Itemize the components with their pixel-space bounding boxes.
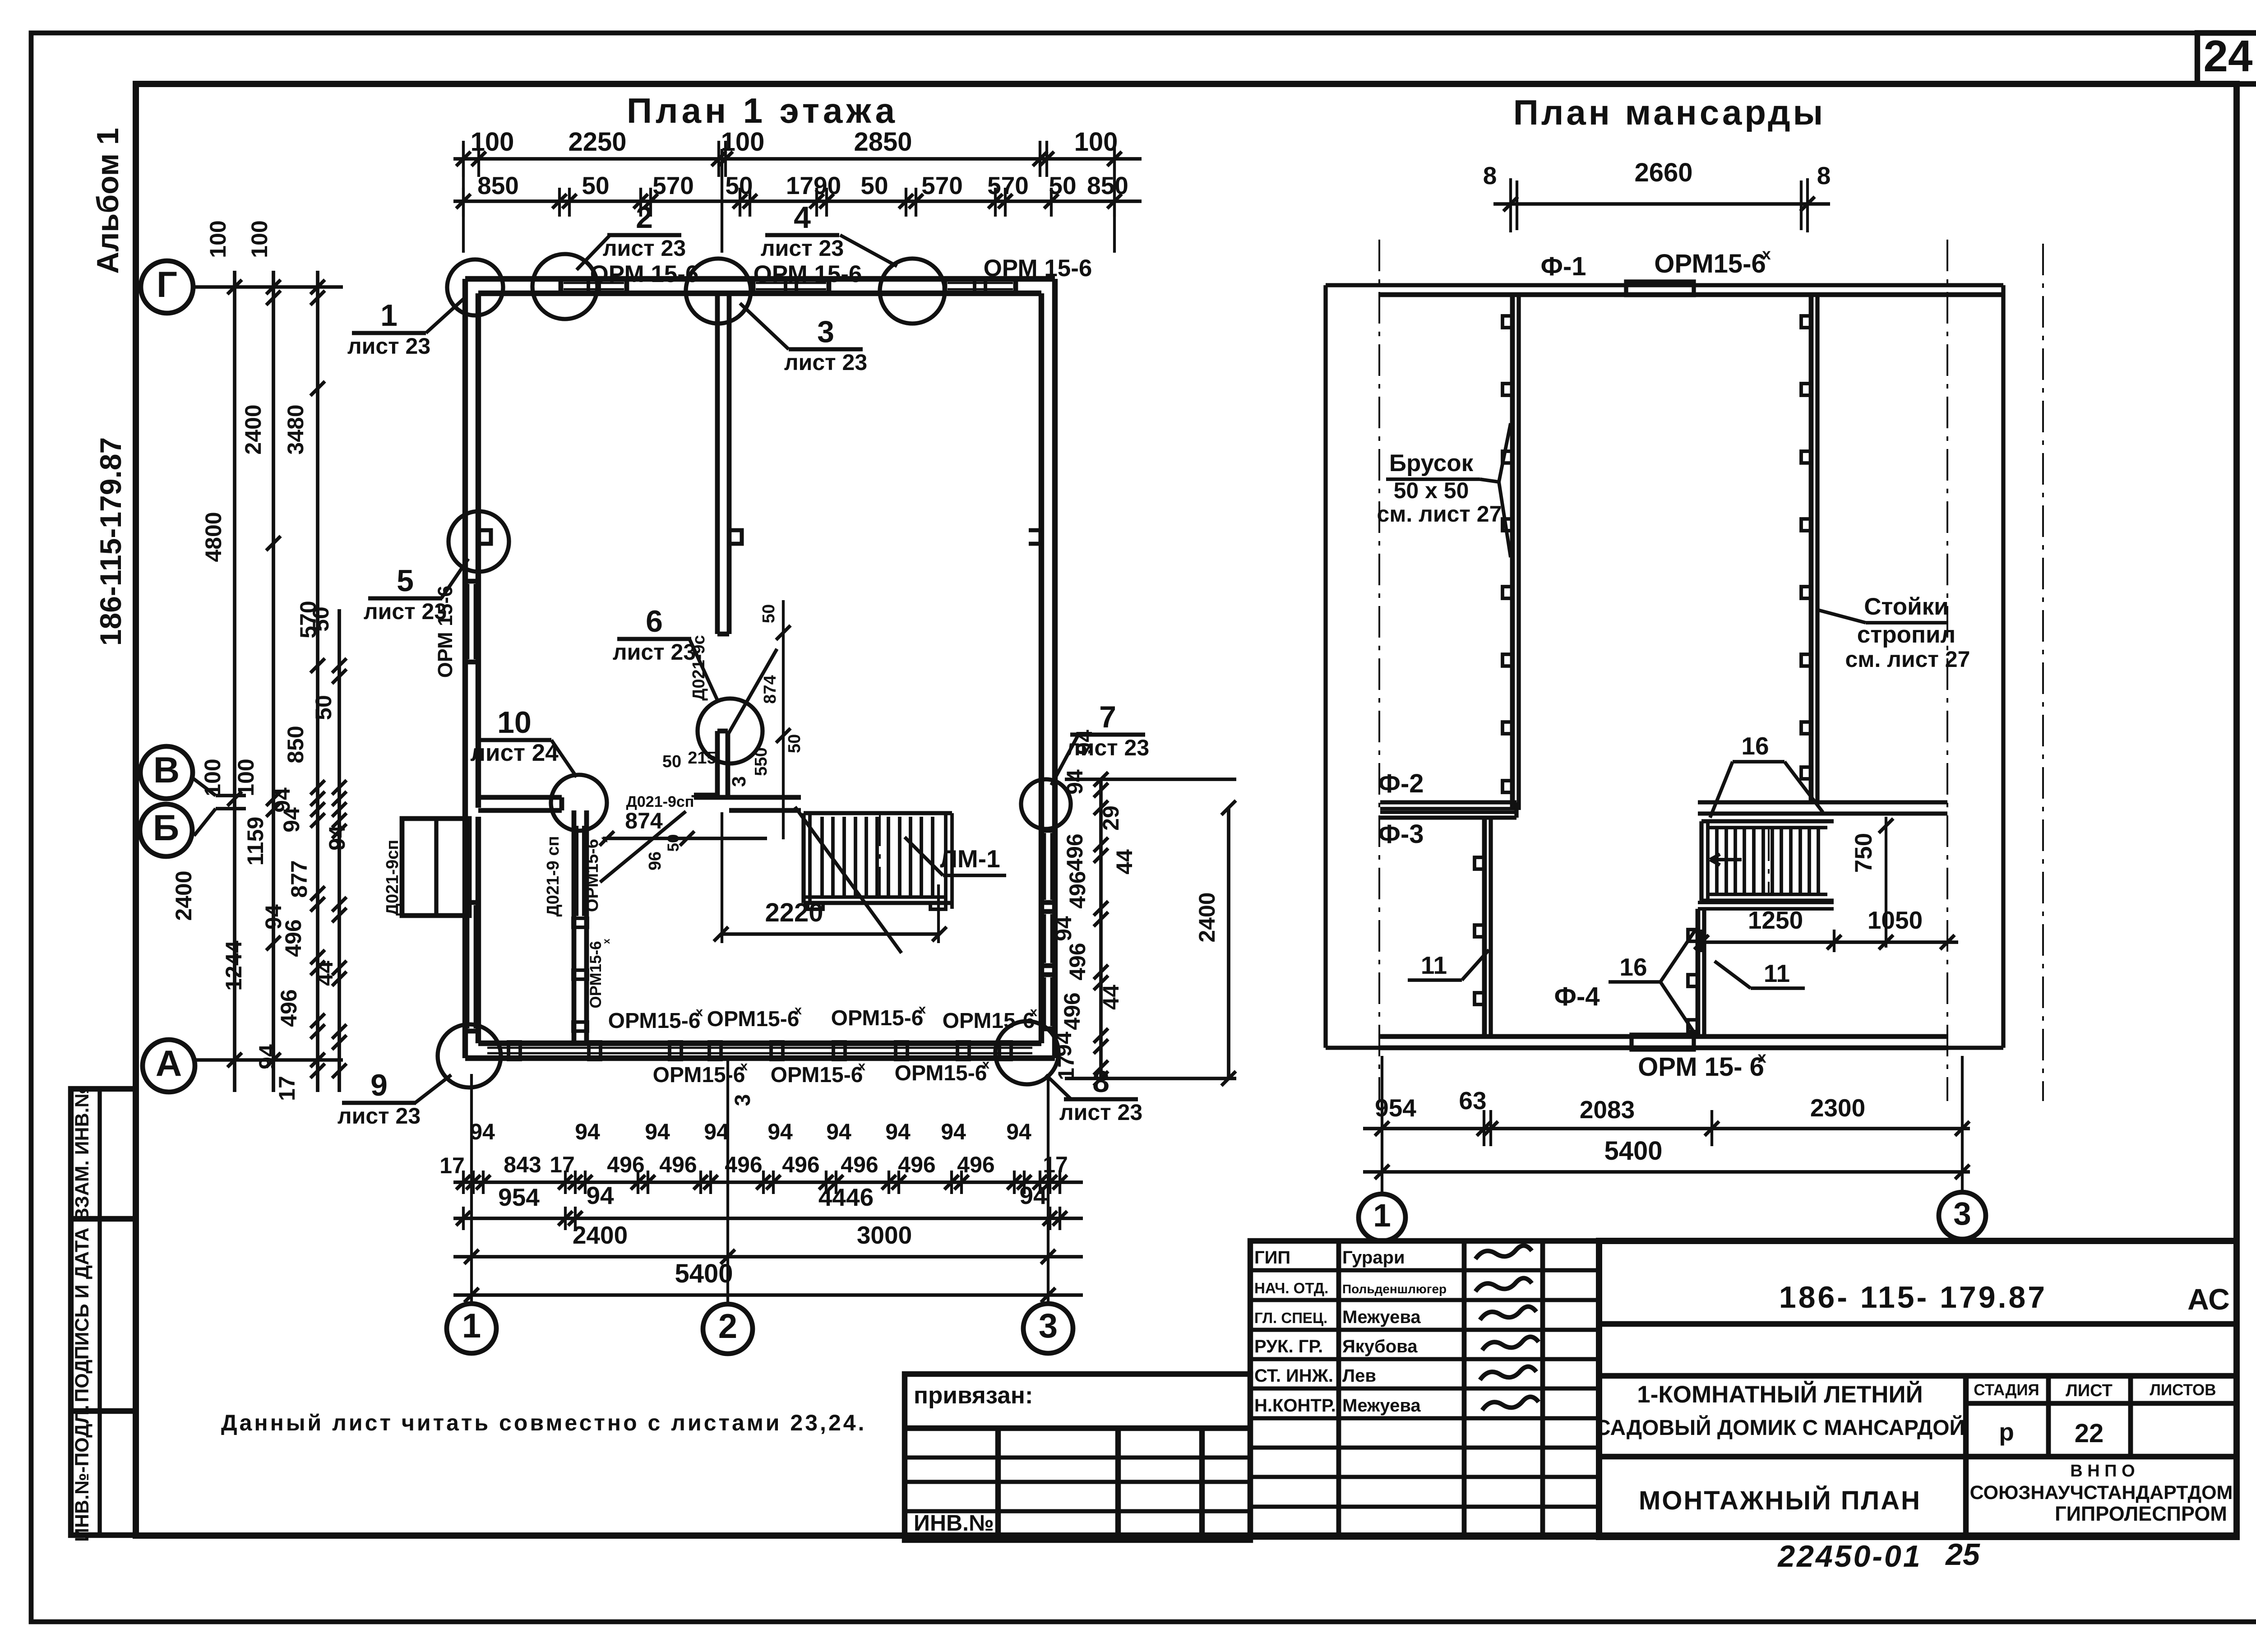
svg-text:100: 100 [233, 759, 259, 796]
svg-text:25: 25 [1945, 1537, 1980, 1572]
svg-text:7: 7 [1099, 700, 1116, 734]
svg-text:94: 94 [941, 1119, 966, 1144]
svg-text:Д021-9 сп: Д021-9 сп [544, 836, 563, 917]
svg-text:50: 50 [582, 171, 609, 199]
svg-text:496: 496 [1059, 992, 1085, 1030]
svg-text:Б: Б [153, 808, 179, 848]
svg-text:22450-01: 22450-01 [1777, 1539, 1922, 1573]
svg-text:НАЧ. ОТД.: НАЧ. ОТД. [1254, 1280, 1328, 1296]
svg-text:850: 850 [1087, 171, 1128, 199]
svg-text:8: 8 [1092, 1064, 1110, 1099]
svg-text:29: 29 [1098, 805, 1123, 831]
svg-text:94: 94 [1006, 1119, 1031, 1144]
svg-text:44: 44 [1112, 849, 1137, 875]
svg-text:186- 115- 179.87: 186- 115- 179.87 [1779, 1280, 2047, 1314]
svg-text:Польденшлюгер: Польденшлюгер [1342, 1282, 1447, 1296]
svg-text:570: 570 [652, 171, 694, 199]
svg-text:x: x [1762, 245, 1771, 263]
svg-text:496: 496 [1065, 943, 1090, 980]
svg-text:50 x 50: 50 x 50 [1394, 478, 1469, 503]
svg-text:ОРМ 15- 6: ОРМ 15- 6 [1638, 1052, 1764, 1082]
svg-text:100: 100 [247, 220, 272, 258]
svg-text:2660: 2660 [1634, 158, 1692, 187]
svg-text:3: 3 [731, 1094, 755, 1106]
svg-text:94: 94 [826, 1119, 851, 1144]
svg-text:лист 23: лист 23 [1066, 735, 1149, 760]
svg-text:ЛИСТОВ: ЛИСТОВ [2150, 1381, 2216, 1399]
svg-text:2250: 2250 [568, 127, 626, 157]
svg-text:1250: 1250 [1748, 906, 1803, 934]
svg-text:496: 496 [841, 1152, 878, 1177]
svg-text:50: 50 [308, 606, 333, 632]
svg-text:ОРМ15-6: ОРМ15-6 [608, 1009, 701, 1033]
svg-text:2: 2 [636, 200, 653, 235]
svg-text:5: 5 [397, 564, 414, 598]
svg-text:1159: 1159 [243, 817, 268, 865]
svg-text:САДОВЫЙ ДОМИК С МАНСАРДОЙ: САДОВЫЙ ДОМИК С МАНСАРДОЙ [1595, 1415, 1965, 1440]
svg-text:1050: 1050 [1868, 906, 1923, 934]
svg-text:94: 94 [279, 807, 304, 833]
svg-text:843: 843 [504, 1152, 541, 1177]
svg-text:100: 100 [200, 759, 225, 796]
svg-text:9: 9 [370, 1068, 388, 1102]
svg-text:94: 94 [254, 1044, 280, 1069]
svg-text:ЛИСТ: ЛИСТ [2066, 1381, 2113, 1400]
svg-text:Лев: Лев [1342, 1366, 1376, 1386]
svg-text:496: 496 [782, 1152, 819, 1177]
svg-text:496: 496 [276, 989, 301, 1027]
svg-text:В Н П О: В Н П О [2070, 1462, 2135, 1481]
svg-text:6: 6 [646, 604, 663, 639]
svg-text:x: x [1757, 1049, 1766, 1066]
svg-text:привязан:: привязан: [914, 1382, 1033, 1409]
svg-text:24: 24 [2203, 31, 2252, 81]
svg-text:5400: 5400 [675, 1259, 733, 1288]
svg-text:11: 11 [1421, 951, 1447, 979]
svg-text:ИНВ.№: ИНВ.№ [914, 1510, 994, 1536]
svg-text:94: 94 [575, 1119, 600, 1144]
svg-text:Брусок: Брусок [1389, 450, 1474, 477]
svg-text:Стойки: Стойки [1864, 593, 1949, 620]
svg-text:1244: 1244 [221, 940, 246, 990]
svg-text:ОРМ15-6: ОРМ15-6 [831, 1006, 924, 1030]
svg-text:94: 94 [324, 825, 350, 851]
svg-text:4: 4 [794, 200, 811, 235]
svg-text:63: 63 [1459, 1087, 1486, 1115]
svg-text:ОРМ 15-6: ОРМ 15-6 [754, 261, 862, 287]
svg-text:А: А [156, 1043, 182, 1084]
svg-text:4446: 4446 [818, 1183, 874, 1211]
svg-text:570: 570 [987, 171, 1029, 199]
svg-text:Гурари: Гурари [1342, 1248, 1405, 1268]
svg-text:570: 570 [921, 171, 963, 199]
svg-text:1: 1 [380, 298, 398, 333]
svg-text:Межуева: Межуева [1342, 1396, 1421, 1416]
svg-text:3: 3 [728, 776, 750, 787]
svg-text:x: x [601, 939, 612, 944]
svg-text:2300: 2300 [1810, 1094, 1865, 1122]
svg-text:СОЮЗНАУЧСТАНДАРТДОМ: СОЮЗНАУЧСТАНДАРТДОМ [1970, 1482, 2233, 1504]
svg-text:4800: 4800 [201, 512, 226, 562]
svg-text:44: 44 [1098, 985, 1123, 1010]
svg-text:2083: 2083 [1580, 1096, 1635, 1124]
svg-text:x: x [919, 1002, 926, 1017]
svg-text:ОРМ15-6: ОРМ15-6 [895, 1061, 987, 1085]
svg-text:94: 94 [1051, 916, 1076, 941]
svg-text:496: 496 [725, 1152, 762, 1177]
svg-text:2400: 2400 [573, 1221, 628, 1249]
svg-text:186-115-179.87: 186-115-179.87 [94, 437, 127, 646]
svg-text:100: 100 [205, 220, 231, 258]
svg-text:x: x [696, 1005, 703, 1019]
svg-text:94: 94 [704, 1119, 729, 1144]
svg-text:1: 1 [462, 1307, 481, 1345]
svg-text:ОРМ 15-6: ОРМ 15-6 [984, 255, 1092, 282]
svg-text:3: 3 [817, 315, 834, 349]
svg-text:17: 17 [274, 1076, 300, 1101]
svg-text:1790: 1790 [786, 171, 841, 199]
svg-text:лист 24: лист 24 [470, 740, 559, 766]
svg-text:954: 954 [498, 1183, 540, 1211]
svg-text:100: 100 [1074, 127, 1118, 157]
svg-text:Ф-2: Ф-2 [1378, 769, 1424, 798]
svg-text:17: 17 [550, 1152, 575, 1177]
svg-text:16: 16 [1619, 953, 1647, 981]
svg-text:10: 10 [497, 705, 532, 740]
svg-text:496: 496 [659, 1152, 697, 1177]
svg-text:Н.КОНТР.: Н.КОНТР. [1254, 1396, 1336, 1416]
svg-text:496: 496 [1062, 833, 1087, 871]
svg-text:Ф-4: Ф-4 [1554, 982, 1600, 1011]
svg-text:ОРМ15-6: ОРМ15-6 [771, 1063, 863, 1087]
svg-text:96: 96 [646, 851, 665, 870]
svg-text:План 1 этажа: План 1 этажа [627, 91, 898, 130]
svg-text:50: 50 [665, 834, 682, 852]
svg-text:94: 94 [586, 1181, 614, 1209]
svg-text:50: 50 [785, 734, 804, 753]
svg-text:ГЛ. СПЕЦ.: ГЛ. СПЕЦ. [1254, 1310, 1327, 1326]
svg-text:496: 496 [607, 1152, 644, 1177]
svg-text:1-КОМНАТНЫЙ ЛЕТНИЙ: 1-КОМНАТНЫЙ ЛЕТНИЙ [1637, 1380, 1923, 1408]
svg-text:850: 850 [477, 171, 519, 199]
svg-text:ОРМ15-6: ОРМ15-6 [587, 941, 605, 1008]
svg-text:ОРМ15-6: ОРМ15-6 [943, 1009, 1035, 1033]
svg-text:2220: 2220 [765, 898, 823, 927]
svg-text:2400: 2400 [171, 870, 196, 921]
svg-text:2850: 2850 [854, 127, 912, 157]
svg-text:94: 94 [885, 1119, 911, 1144]
svg-text:ОРМ 15-6: ОРМ 15-6 [434, 586, 457, 678]
svg-text:СТ. ИНЖ.: СТ. ИНЖ. [1254, 1366, 1333, 1386]
svg-text:ГИПРОЛЕСПРОМ: ГИПРОЛЕСПРОМ [2055, 1502, 2227, 1525]
svg-text:50: 50 [860, 171, 888, 199]
svg-text:МОНТАЖНЫЙ ПЛАН: МОНТАЖНЫЙ ПЛАН [1639, 1486, 1921, 1515]
svg-text:x: x [858, 1059, 865, 1074]
svg-text:22: 22 [2075, 1419, 2104, 1448]
svg-text:496: 496 [1065, 871, 1090, 908]
svg-text:2400: 2400 [240, 404, 266, 454]
svg-text:17: 17 [1043, 1152, 1068, 1177]
svg-text:496: 496 [957, 1152, 994, 1177]
svg-text:ЛМ-1: ЛМ-1 [940, 845, 1000, 873]
svg-text:РУК. ГР.: РУК. ГР. [1254, 1337, 1323, 1356]
svg-text:Ф-3: Ф-3 [1378, 819, 1424, 849]
svg-text:Межуева: Межуева [1342, 1307, 1421, 1327]
svg-text:лист 23: лист 23 [784, 350, 867, 375]
svg-text:44: 44 [312, 961, 337, 986]
svg-text:лист 23: лист 23 [1059, 1100, 1142, 1125]
svg-text:Якубова: Якубова [1342, 1337, 1418, 1356]
svg-text:лист 23: лист 23 [603, 236, 686, 261]
svg-text:Г: Г [157, 264, 177, 305]
svg-text:8: 8 [1817, 162, 1831, 190]
svg-text:3: 3 [1039, 1307, 1058, 1345]
svg-text:100: 100 [721, 127, 765, 157]
svg-text:Д021-9сп: Д021-9сп [383, 840, 402, 916]
svg-text:16: 16 [1741, 732, 1769, 760]
svg-text:550: 550 [752, 747, 771, 776]
svg-text:877: 877 [287, 860, 312, 898]
svg-text:50: 50 [759, 604, 778, 623]
svg-text:94: 94 [470, 1119, 495, 1144]
svg-text:стропил: стропил [1857, 621, 1956, 648]
svg-text:94: 94 [645, 1119, 670, 1144]
svg-text:x: x [1030, 1005, 1037, 1019]
svg-text:ОРМ 15-6: ОРМ 15-6 [590, 261, 699, 287]
svg-text:874: 874 [761, 675, 780, 703]
svg-text:94: 94 [1019, 1181, 1047, 1209]
svg-text:р: р [1999, 1418, 2014, 1446]
svg-text:x: x [598, 837, 610, 842]
svg-text:2400: 2400 [1194, 892, 1220, 942]
svg-text:лист 23: лист 23 [337, 1103, 421, 1129]
svg-text:3480: 3480 [283, 404, 308, 454]
svg-text:ИНВ.№-ПОДЛ.: ИНВ.№-ПОДЛ. [71, 1405, 93, 1542]
svg-text:лист 23: лист 23 [613, 639, 696, 665]
svg-text:см. лист 27: см. лист 27 [1377, 501, 1502, 527]
svg-text:50: 50 [311, 695, 336, 720]
svg-text:Альбом 1: Альбом 1 [91, 128, 125, 274]
svg-text:750: 750 [1850, 833, 1877, 873]
svg-text:2: 2 [718, 1307, 737, 1346]
svg-text:50: 50 [662, 752, 681, 771]
svg-text:850: 850 [283, 726, 308, 763]
svg-text:8: 8 [1483, 162, 1497, 190]
svg-text:1: 1 [1373, 1198, 1391, 1234]
svg-text:496: 496 [281, 919, 306, 957]
svg-text:100: 100 [471, 127, 514, 157]
svg-text:АС: АС [2187, 1282, 2230, 1316]
svg-text:17: 17 [439, 1153, 465, 1178]
svg-text:см. лист 27: см. лист 27 [1845, 647, 1970, 672]
svg-text:В: В [153, 750, 180, 791]
svg-text:x: x [982, 1057, 989, 1072]
svg-text:Ф-1: Ф-1 [1540, 252, 1586, 281]
svg-text:ОРМ15-6: ОРМ15-6 [1654, 249, 1766, 278]
svg-text:x: x [795, 1003, 802, 1018]
svg-text:874: 874 [625, 808, 663, 833]
svg-text:ПОДПИСЬ И ДАТА: ПОДПИСЬ И ДАТА [71, 1227, 93, 1402]
svg-text:3000: 3000 [857, 1221, 912, 1249]
svg-text:лист 23: лист 23 [761, 236, 844, 261]
svg-text:План мансарды: План мансарды [1513, 93, 1826, 132]
svg-text:ОРМ15-6: ОРМ15-6 [707, 1007, 800, 1031]
svg-text:5400: 5400 [1604, 1136, 1662, 1166]
svg-text:x: x [740, 1059, 748, 1074]
svg-text:94: 94 [767, 1119, 793, 1144]
svg-text:СТАДИЯ: СТАДИЯ [1974, 1381, 2039, 1399]
svg-text:3: 3 [1953, 1196, 1971, 1232]
svg-text:496: 496 [898, 1152, 935, 1177]
svg-text:ВЗАМ. ИНВ.№: ВЗАМ. ИНВ.№ [71, 1086, 93, 1222]
svg-text:Д021-9с: Д021-9с [689, 635, 708, 700]
svg-text:215: 215 [688, 749, 716, 768]
svg-text:ОРМ15-6: ОРМ15-6 [653, 1063, 745, 1087]
svg-text:ГИП: ГИП [1254, 1248, 1290, 1268]
svg-text:ОРМ15-6: ОРМ15-6 [583, 839, 602, 912]
svg-text:лист 23: лист 23 [347, 333, 430, 359]
svg-text:11: 11 [1764, 959, 1790, 987]
svg-text:Данный лист читать совместн: Данный лист читать совместно с листами 2… [221, 1410, 866, 1435]
svg-text:50: 50 [1049, 171, 1076, 199]
